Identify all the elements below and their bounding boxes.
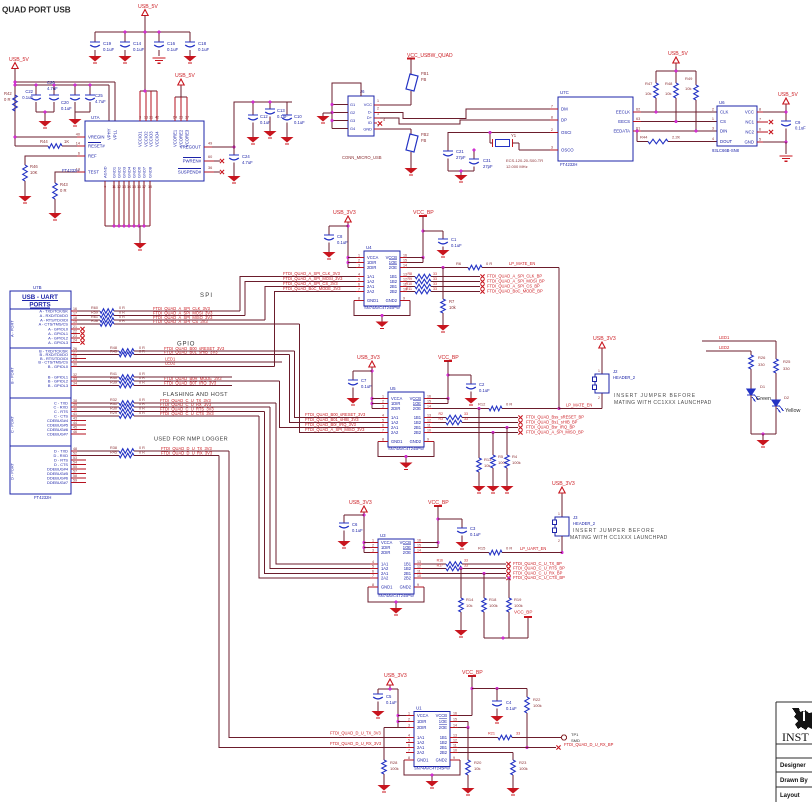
svg-text:DP: DP	[561, 118, 567, 123]
svg-text:0.1uF: 0.1uF	[337, 240, 348, 245]
svg-text:11: 11	[112, 185, 116, 189]
svg-text:VREGIN: VREGIN	[88, 135, 104, 140]
svg-text:FTDI_QUAD_D_U_RX_3V3: FTDI_QUAD_D_U_RX_3V3	[330, 741, 382, 746]
svg-text:16: 16	[73, 307, 77, 311]
svg-text:C4: C4	[506, 700, 512, 705]
svg-text:62: 62	[636, 108, 640, 112]
svg-text:Layout: Layout	[780, 793, 800, 799]
svg-text:3: 3	[712, 127, 714, 131]
svg-text:0.1uF: 0.1uF	[352, 528, 363, 533]
svg-text:AGND: AGND	[103, 166, 108, 178]
svg-text:0.1uF: 0.1uF	[795, 126, 806, 131]
svg-text:52: 52	[73, 451, 77, 455]
svg-text:0.1uF: 0.1uF	[361, 384, 372, 389]
svg-text:U5: U5	[390, 386, 396, 391]
svg-text:6: 6	[372, 569, 374, 573]
svg-text:3: 3	[372, 548, 374, 552]
svg-text:LED1: LED1	[719, 335, 730, 340]
svg-text:4: 4	[383, 118, 385, 122]
svg-text:FTDI_QUAD_B01_sHIB_3V3: FTDI_QUAD_B01_sHIB_3V3	[164, 349, 218, 354]
svg-text:13: 13	[403, 272, 407, 276]
svg-text:USB_5V: USB_5V	[668, 51, 688, 57]
svg-text:330: 330	[758, 362, 765, 367]
svg-text:10k: 10k	[474, 766, 480, 771]
svg-text:33: 33	[464, 412, 468, 416]
svg-text:R26: R26	[758, 355, 766, 360]
svg-text:1: 1	[712, 117, 714, 121]
svg-text:33: 33	[433, 272, 437, 276]
svg-text:12: 12	[453, 738, 457, 742]
svg-text:SPI: SPI	[200, 293, 213, 299]
svg-text:R30: R30	[110, 407, 117, 411]
svg-text:R25: R25	[783, 359, 791, 364]
svg-text:1: 1	[382, 394, 384, 398]
svg-text:VCCIO4: VCCIO4	[155, 131, 160, 147]
svg-text:U4: U4	[366, 245, 372, 250]
svg-text:63: 63	[636, 117, 640, 121]
svg-text:18: 18	[148, 185, 152, 189]
svg-text:EECLK: EECLK	[616, 110, 630, 115]
svg-text:SN74AVC4T245PW: SN74AVC4T245PW	[364, 305, 400, 310]
svg-text:C18: C18	[198, 41, 207, 46]
svg-text:30: 30	[73, 362, 77, 366]
svg-text:R49: R49	[685, 76, 693, 81]
svg-text:GND: GND	[744, 140, 754, 145]
svg-text:31: 31	[149, 116, 153, 120]
svg-text:C24: C24	[242, 154, 250, 159]
svg-text:29: 29	[73, 358, 77, 362]
svg-text:VPHY: VPHY	[107, 128, 112, 140]
svg-text:CDEBUG#7: CDEBUG#7	[47, 432, 68, 437]
svg-text:R21: R21	[488, 732, 495, 736]
svg-text:9: 9	[453, 756, 455, 760]
svg-text:93LC66B-SN8: 93LC66B-SN8	[712, 148, 740, 153]
svg-text:12: 12	[403, 277, 407, 281]
svg-text:HEADER_2: HEADER_2	[573, 521, 596, 526]
svg-text:DM: DM	[561, 107, 568, 112]
svg-text:R3: R3	[439, 417, 444, 421]
svg-text:VCC_BP: VCC_BP	[462, 670, 483, 676]
svg-text:INSERT JUMPER BEFORE: INSERT JUMPER BEFORE	[573, 528, 655, 534]
svg-text:33: 33	[73, 377, 77, 381]
svg-text:44: 44	[73, 421, 77, 425]
svg-text:R6: R6	[456, 261, 462, 266]
svg-text:EECS: EECS	[618, 119, 630, 124]
svg-text:14: 14	[403, 263, 407, 267]
svg-text:45: 45	[73, 425, 77, 429]
svg-text:2A2: 2A2	[367, 289, 375, 294]
svg-text:6: 6	[408, 743, 410, 747]
svg-text:9: 9	[417, 583, 419, 587]
svg-text:10k: 10k	[685, 86, 691, 91]
svg-text:LED2: LED2	[165, 361, 176, 366]
svg-text:4: 4	[382, 413, 384, 417]
svg-text:6: 6	[358, 282, 360, 286]
svg-text:60: 60	[208, 155, 212, 159]
svg-text:23: 23	[73, 334, 77, 338]
svg-text:8: 8	[551, 116, 553, 120]
svg-text:C - PORT: C - PORT	[10, 415, 15, 433]
svg-text:R20: R20	[474, 760, 482, 765]
svg-text:USB_3V3: USB_3V3	[552, 481, 575, 487]
svg-text:40: 40	[73, 407, 77, 411]
svg-text:5: 5	[382, 418, 384, 422]
svg-text:QUAD PORT USB: QUAD PORT USB	[2, 6, 71, 15]
svg-text:A - PORT: A - PORT	[10, 320, 15, 337]
svg-text:64: 64	[173, 116, 177, 120]
svg-text:GND: GND	[363, 127, 372, 132]
svg-text:17: 17	[73, 311, 77, 315]
svg-text:10: 10	[417, 574, 421, 578]
svg-text:PWREN#: PWREN#	[183, 159, 202, 164]
svg-text:C8: C8	[337, 234, 343, 239]
svg-text:R38: R38	[110, 446, 117, 450]
svg-text:OSCO: OSCO	[561, 148, 574, 153]
svg-text:4: 4	[408, 733, 410, 737]
svg-text:0 R: 0 R	[506, 546, 512, 551]
svg-text:7: 7	[358, 287, 360, 291]
svg-text:1: 1	[377, 99, 379, 103]
svg-text:2: 2	[408, 717, 410, 721]
svg-text:1: 1	[558, 512, 560, 516]
svg-text:R8: R8	[408, 272, 413, 276]
svg-text:CS: CS	[720, 119, 726, 124]
svg-text:5: 5	[372, 564, 374, 568]
svg-text:15: 15	[132, 185, 136, 189]
svg-text:GND2: GND2	[436, 758, 448, 763]
svg-text:FTDI_QUAD_D_U_RX_BP: FTDI_QUAD_D_U_RX_BP	[564, 742, 614, 747]
svg-text:13: 13	[427, 413, 431, 417]
svg-text:R58: R58	[91, 319, 98, 323]
svg-text:2: 2	[382, 399, 384, 403]
svg-text:2: 2	[712, 108, 714, 112]
svg-text:2A2: 2A2	[391, 430, 399, 435]
svg-text:2DIR: 2DIR	[381, 550, 390, 555]
svg-text:2B2: 2B2	[404, 576, 412, 581]
svg-text:2: 2	[598, 396, 600, 400]
svg-text:4: 4	[712, 137, 714, 141]
svg-text:G1: G1	[350, 102, 355, 107]
svg-text:R31: R31	[110, 402, 117, 406]
svg-text:15: 15	[403, 258, 407, 262]
svg-text:R47: R47	[645, 81, 653, 86]
svg-text:R9: R9	[408, 277, 413, 281]
svg-text:0 R: 0 R	[4, 97, 11, 102]
svg-text:GND2: GND2	[400, 585, 412, 590]
svg-text:48: 48	[73, 447, 77, 451]
svg-text:54: 54	[73, 460, 77, 464]
svg-text:4.7uF: 4.7uF	[242, 160, 253, 165]
svg-text:Drawn By: Drawn By	[780, 778, 808, 784]
svg-text:3: 3	[408, 723, 410, 727]
svg-text:8: 8	[382, 437, 384, 441]
svg-text:TP1: TP1	[571, 732, 579, 737]
svg-text:6: 6	[759, 128, 761, 132]
svg-text:100k: 100k	[390, 766, 399, 771]
svg-text:58: 58	[73, 474, 77, 478]
svg-text:46: 46	[73, 430, 77, 434]
svg-text:9: 9	[403, 296, 405, 300]
svg-text:0.1uF: 0.1uF	[103, 47, 115, 52]
svg-text:16: 16	[427, 394, 431, 398]
svg-text:G4: G4	[350, 126, 356, 131]
svg-text:FB: FB	[421, 77, 427, 82]
svg-text:USB_5V: USB_5V	[175, 73, 195, 79]
svg-text:0.1uF: 0.1uF	[167, 47, 179, 52]
svg-text:2B2: 2B2	[390, 289, 398, 294]
svg-text:R44: R44	[640, 135, 648, 140]
svg-text:7: 7	[372, 574, 374, 578]
svg-text:12: 12	[117, 185, 121, 189]
svg-text:33: 33	[433, 282, 437, 286]
svg-text:0 R: 0 R	[506, 402, 512, 407]
svg-text:C3: C3	[470, 526, 476, 531]
svg-text:INST: INST	[782, 730, 809, 744]
svg-text:0 R: 0 R	[486, 261, 492, 266]
svg-text:12: 12	[417, 564, 421, 568]
svg-text:2OE: 2OE	[389, 265, 397, 270]
svg-text:R22: R22	[533, 697, 541, 702]
svg-text:10k: 10k	[645, 91, 651, 96]
svg-text:GND2: GND2	[386, 298, 398, 303]
svg-text:2: 2	[372, 543, 374, 547]
svg-text:4: 4	[372, 560, 374, 564]
svg-text:ID: ID	[368, 120, 372, 125]
svg-text:15: 15	[453, 717, 457, 721]
svg-text:C6: C6	[352, 522, 358, 527]
svg-text:0.1uF: 0.1uF	[260, 120, 271, 125]
svg-text:R17: R17	[437, 564, 443, 568]
svg-text:R10: R10	[406, 282, 412, 286]
svg-text:CONN_MICRO_USB: CONN_MICRO_USB	[342, 155, 382, 160]
svg-text:SN74AVC4T245PW: SN74AVC4T245PW	[378, 593, 414, 598]
svg-text:FT4232H: FT4232H	[34, 495, 51, 500]
svg-text:GND1: GND1	[391, 439, 403, 444]
svg-text:C13: C13	[277, 108, 285, 113]
svg-text:FB: FB	[421, 138, 427, 143]
svg-text:R42: R42	[4, 91, 12, 96]
svg-text:C22: C22	[25, 89, 33, 94]
svg-text:33: 33	[516, 732, 520, 736]
svg-text:16: 16	[417, 538, 421, 542]
svg-text:39: 39	[73, 403, 77, 407]
svg-text:FTDI_QUAD_A_SPI_MISO_3V3: FTDI_QUAD_A_SPI_MISO_3V3	[305, 427, 365, 432]
svg-text:53: 53	[73, 456, 77, 460]
svg-text:2DIR: 2DIR	[417, 725, 426, 730]
svg-text:100k: 100k	[514, 603, 523, 608]
svg-text:36: 36	[208, 166, 212, 170]
svg-text:27pF: 27pF	[483, 164, 493, 169]
svg-text:Yellow: Yellow	[785, 408, 800, 414]
svg-text:2OE: 2OE	[413, 406, 421, 411]
svg-text:1DIR: 1DIR	[417, 719, 426, 724]
svg-text:100k: 100k	[512, 460, 521, 465]
svg-text:USB_3V3: USB_3V3	[333, 210, 356, 216]
svg-text:R18: R18	[489, 597, 497, 602]
svg-text:R59: R59	[91, 311, 98, 315]
svg-text:R29: R29	[110, 411, 117, 415]
svg-text:U3: U3	[380, 533, 386, 538]
svg-text:33: 33	[464, 559, 468, 563]
svg-text:SUSPEND#: SUSPEND#	[178, 170, 202, 175]
svg-text:C16: C16	[167, 41, 176, 46]
svg-text:8: 8	[358, 296, 360, 300]
svg-text:USB_3V3: USB_3V3	[384, 673, 407, 679]
svg-text:C9: C9	[795, 120, 801, 125]
svg-text:U1: U1	[416, 706, 422, 711]
svg-text:D-: D-	[368, 110, 373, 115]
svg-text:C25: C25	[95, 93, 103, 98]
svg-text:G3: G3	[350, 118, 355, 123]
svg-text:6: 6	[382, 423, 384, 427]
svg-text:2: 2	[358, 258, 360, 262]
svg-text:13: 13	[122, 185, 126, 189]
svg-text:GND1: GND1	[367, 298, 379, 303]
svg-text:C1: C1	[451, 237, 457, 242]
svg-text:0.1uF: 0.1uF	[470, 532, 481, 537]
svg-text:3: 3	[382, 404, 384, 408]
svg-text:3: 3	[358, 263, 360, 267]
svg-text:RESET#: RESET#	[88, 144, 105, 149]
svg-text:FB2: FB2	[421, 132, 429, 137]
svg-text:C14: C14	[133, 41, 142, 46]
svg-text:GND2: GND2	[410, 439, 422, 444]
svg-text:2OE: 2OE	[439, 725, 447, 730]
svg-text:11: 11	[453, 743, 457, 747]
svg-text:NC2: NC2	[745, 130, 754, 135]
svg-text:0.1uF: 0.1uF	[61, 106, 72, 111]
svg-text:0.1uF: 0.1uF	[451, 243, 462, 248]
svg-text:R16: R16	[437, 559, 443, 563]
svg-text:B - PORT: B - PORT	[10, 367, 15, 384]
svg-text:5: 5	[759, 138, 761, 142]
svg-text:C2: C2	[479, 382, 485, 387]
svg-text:U7C: U7C	[560, 90, 569, 95]
svg-text:INSERT JUMPER BEFORE: INSERT JUMPER BEFORE	[614, 393, 696, 399]
svg-text:9: 9	[427, 437, 429, 441]
svg-text:FTDI_QUAD_D_U_TX_3V3: FTDI_QUAD_D_U_TX_3V3	[330, 731, 381, 736]
svg-text:C20: C20	[61, 100, 69, 105]
svg-text:FT4232H: FT4232H	[560, 162, 577, 167]
svg-text:8: 8	[759, 108, 761, 112]
svg-text:R12: R12	[478, 402, 486, 407]
svg-text:C7: C7	[361, 378, 367, 383]
svg-text:R43: R43	[110, 350, 117, 354]
svg-text:R19: R19	[514, 597, 522, 602]
svg-text:19: 19	[73, 320, 77, 324]
svg-text:0.1uF: 0.1uF	[22, 95, 33, 100]
svg-text:FTDI_QUAD_BoC_MODE_3V3: FTDI_QUAD_BoC_MODE_3V3	[283, 286, 341, 291]
svg-text:0.1uF: 0.1uF	[386, 700, 397, 705]
svg-text:USB_3V3: USB_3V3	[357, 355, 380, 361]
svg-text:U6: U6	[719, 100, 725, 105]
svg-text:7: 7	[551, 105, 553, 109]
svg-text:33: 33	[433, 277, 437, 281]
svg-text:LP_MATE_EN: LP_MATE_EN	[566, 403, 592, 408]
svg-text:ECS-120-20-S00-TR: ECS-120-20-S00-TR	[506, 158, 543, 163]
svg-text:3: 3	[377, 112, 379, 116]
svg-text:20: 20	[179, 116, 183, 120]
svg-text:PORTS: PORTS	[29, 302, 50, 309]
svg-text:10k: 10k	[665, 91, 671, 96]
svg-text:D2: D2	[784, 395, 790, 400]
svg-text:21: 21	[73, 325, 77, 329]
svg-text:R39: R39	[110, 381, 117, 385]
svg-text:10k: 10k	[466, 603, 472, 608]
svg-text:VCCIO1: VCCIO1	[138, 131, 143, 147]
svg-text:5: 5	[358, 277, 360, 281]
svg-text:GND7: GND7	[142, 166, 147, 178]
svg-text:1: 1	[408, 711, 410, 715]
svg-text:16: 16	[403, 253, 407, 257]
svg-text:LP_MATE_EN: LP_MATE_EN	[509, 261, 535, 266]
svg-text:C12: C12	[260, 114, 268, 119]
svg-text:VCORE1: VCORE1	[173, 129, 178, 147]
svg-text:U7B: U7B	[33, 285, 42, 290]
svg-text:37: 37	[185, 116, 189, 120]
svg-text:55: 55	[73, 465, 77, 469]
svg-text:USB_5V: USB_5V	[138, 4, 158, 10]
svg-text:USB_5V: USB_5V	[778, 92, 798, 98]
svg-text:0.1uF: 0.1uF	[133, 47, 145, 52]
svg-text:100k: 100k	[533, 703, 542, 708]
svg-text:10K: 10K	[30, 170, 38, 175]
svg-text:USED FOR NMP LOGGER: USED FOR NMP LOGGER	[154, 437, 228, 443]
svg-text:LED2: LED2	[719, 345, 730, 350]
svg-text:15: 15	[427, 399, 431, 403]
svg-text:4: 4	[358, 272, 360, 276]
svg-text:1: 1	[372, 538, 374, 542]
svg-text:0.1uF: 0.1uF	[198, 47, 210, 52]
svg-text:2: 2	[377, 107, 379, 111]
svg-text:R14: R14	[466, 597, 474, 602]
svg-text:R48: R48	[665, 81, 673, 86]
svg-text:Green: Green	[756, 396, 771, 402]
svg-text:R4: R4	[512, 454, 518, 459]
svg-text:14: 14	[127, 185, 131, 189]
svg-text:FTDI_QUAD_C_U_CTS_BP: FTDI_QUAD_C_U_CTS_BP	[513, 575, 565, 580]
svg-text:0 R: 0 R	[60, 188, 67, 193]
svg-text:NC1: NC1	[745, 120, 754, 125]
svg-text:13: 13	[417, 560, 421, 564]
svg-text:8: 8	[372, 583, 374, 587]
svg-text:SN74AVC4T245PW: SN74AVC4T245PW	[414, 766, 450, 771]
svg-text:2A2: 2A2	[417, 750, 425, 755]
svg-text:VCC: VCC	[364, 102, 372, 107]
svg-text:1K: 1K	[64, 139, 69, 144]
svg-text:4.7uF: 4.7uF	[95, 99, 106, 104]
svg-text:49: 49	[208, 142, 212, 146]
svg-text:100k: 100k	[519, 766, 528, 771]
svg-text:14: 14	[417, 548, 421, 552]
svg-text:57: 57	[73, 469, 77, 473]
svg-text:14: 14	[76, 142, 80, 146]
svg-text:2DIR: 2DIR	[367, 265, 376, 270]
svg-text:2A2: 2A2	[381, 576, 389, 581]
svg-text:C5: C5	[386, 694, 392, 699]
svg-text:8: 8	[408, 756, 410, 760]
svg-text:MATING WITH CC1XXX LAUNCHPAD: MATING WITH CC1XXX LAUNCHPAD	[614, 400, 712, 406]
svg-text:VCC_BP: VCC_BP	[428, 500, 449, 506]
svg-text:R60: R60	[91, 306, 98, 310]
svg-text:33: 33	[433, 287, 437, 291]
svg-text:12.000 MHz: 12.000 MHz	[506, 164, 528, 169]
svg-text:1: 1	[598, 369, 600, 373]
svg-text:13: 13	[144, 116, 148, 120]
svg-text:GND8: GND8	[148, 166, 153, 178]
svg-text:14: 14	[453, 723, 457, 727]
svg-text:R2: R2	[439, 412, 444, 416]
